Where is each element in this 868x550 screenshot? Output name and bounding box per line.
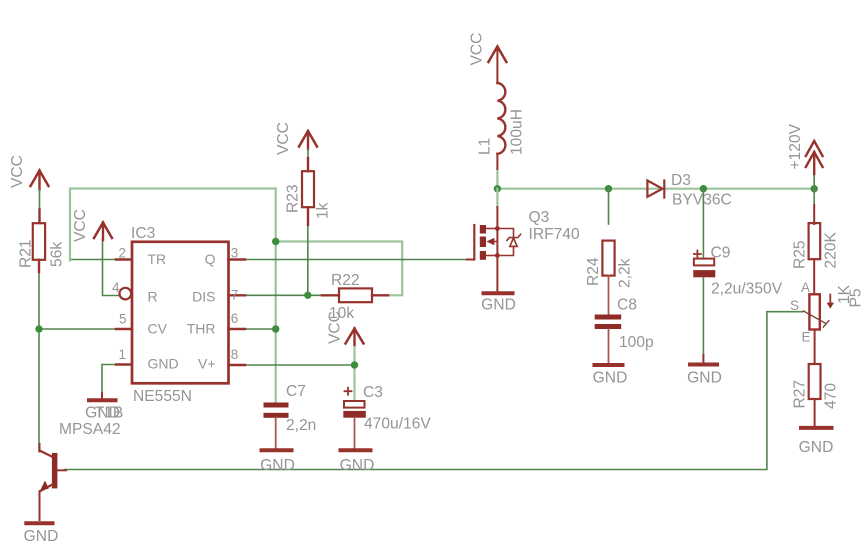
svg-text:Q3: Q3 — [529, 209, 550, 226]
wire: GND pin1 to ground symbol — [102, 365, 117, 395]
svg-text:V+: V+ — [198, 356, 216, 372]
wire: P5 wiper to T1 base (long bottom wire) — [65, 312, 803, 470]
svg-text:GND: GND — [340, 457, 375, 474]
svg-text:56k: 56k — [49, 242, 66, 267]
svg-text:C8: C8 — [617, 297, 637, 314]
svg-text:R25: R25 — [792, 240, 809, 269]
resistor R24 2,2k — [602, 241, 614, 315]
svg-text:GND: GND — [24, 528, 59, 545]
svg-text:GND: GND — [799, 439, 834, 456]
svg-text:TR: TR — [148, 251, 167, 267]
capacitor C8 100p — [595, 315, 622, 364]
svg-text:VCC: VCC — [9, 155, 26, 188]
transistor Q3 IRF740 (n-mosfet) — [467, 207, 521, 291]
wire: L1 bottom to bus — [496, 168, 498, 189]
wire: V+ pin8 to VCC / C3 (pale) — [245, 364, 355, 366]
supply VCC arrow (left, above R21) — [31, 171, 49, 224]
svg-text:220K: 220K — [823, 231, 840, 268]
node: junction bus / R24 — [605, 185, 612, 192]
ground symbol (R27) — [801, 426, 832, 430]
svg-text:R: R — [148, 289, 158, 305]
inductor L1 100uH — [497, 47, 505, 170]
svg-text:GND: GND — [481, 297, 516, 314]
svg-text:IC3: IC3 — [131, 225, 155, 242]
svg-text:C7: C7 — [286, 383, 306, 400]
svg-text:470: 470 — [823, 383, 840, 409]
svg-text:VCC: VCC — [72, 209, 89, 242]
svg-text:6: 6 — [231, 311, 239, 326]
svg-text:P5: P5 — [848, 288, 865, 307]
svg-text:R21: R21 — [18, 239, 35, 268]
svg-text:1k: 1k — [315, 202, 332, 219]
svg-text:4: 4 — [112, 280, 120, 295]
wire: TR pin2 loop over IC (pale) — [70, 259, 116, 261]
supply VCC arrow (pin 4 reset) — [94, 223, 112, 241]
svg-text:VCC: VCC — [275, 122, 292, 155]
capacitor C3 470u/16V (electrolytic) — [343, 388, 366, 448]
svg-text:T1B: T1B — [95, 405, 124, 422]
svg-text:MPSA42: MPSA42 — [59, 421, 121, 438]
ground symbol (C7) — [262, 448, 292, 452]
wire: main bus L1/D3/+120V — [497, 188, 814, 190]
node: junction THR / C7 net — [272, 325, 279, 332]
resistor R25 220K — [809, 205, 821, 294]
svg-text:GND: GND — [687, 370, 722, 387]
wire: THR pin6 to C7 net — [245, 328, 276, 330]
node: junction bus / C9 — [700, 185, 707, 192]
wire: pin4 reset VCC stem (pale) — [103, 238, 120, 296]
svg-text:100uH: 100uH — [509, 109, 526, 155]
wire: VCC stem down to V+ junction and C3 top (pale) — [353, 343, 355, 400]
svg-text:100p: 100p — [619, 334, 654, 351]
ground symbol (IC3 pin1) — [89, 393, 116, 400]
svg-text:D3: D3 — [671, 172, 691, 189]
node: junction DIS / R23 / R22 — [304, 292, 311, 299]
wire: Q output pin3 to Q3 gate — [245, 259, 467, 261]
svg-text:2,2u/350V: 2,2u/350V — [711, 281, 783, 298]
ground symbol (Q3 source) — [484, 291, 513, 295]
resistor R21 56k — [33, 223, 45, 272]
svg-text:1: 1 — [118, 347, 126, 362]
svg-text:7: 7 — [231, 288, 239, 303]
node: junction bus / Q3 drain — [494, 185, 501, 192]
wire: drain up to bus — [496, 189, 498, 207]
node: junction CV / left rail — [35, 325, 42, 332]
svg-text:DIS: DIS — [192, 289, 215, 305]
node: junction V+ / VCC / C3 — [351, 361, 358, 368]
ground symbol (C8) — [595, 363, 623, 367]
svg-text:R23: R23 — [285, 184, 302, 213]
supply +120V arrow — [806, 141, 823, 174]
transistor T1 MPSA42 — [40, 444, 67, 520]
svg-text:C3: C3 — [363, 384, 383, 401]
svg-text:S: S — [790, 298, 799, 313]
svg-text:R24: R24 — [585, 257, 602, 286]
op-amp-style IC body IC3 NE555N — [116, 242, 245, 383]
svg-text:GND: GND — [593, 370, 628, 387]
svg-text:2: 2 — [118, 246, 126, 261]
svg-text:5: 5 — [119, 312, 127, 327]
svg-text:IRF740: IRF740 — [529, 226, 580, 243]
diode D3 BYV36C — [647, 181, 664, 198]
svg-text:2,2k: 2,2k — [617, 258, 634, 288]
ground symbol (C3) — [341, 448, 371, 452]
svg-text:VCC: VCC — [327, 311, 344, 344]
svg-text:8: 8 — [231, 347, 239, 362]
svg-text:GND: GND — [148, 356, 179, 372]
supply VCC arrow (pin 8 V+) — [346, 329, 364, 346]
wire: CV pin5 to left rail — [39, 328, 118, 330]
supply VCC arrow (above L1) — [488, 47, 506, 63]
svg-text:C9: C9 — [711, 245, 731, 262]
svg-text:THR: THR — [187, 321, 216, 337]
supply VCC arrow (above R23) — [299, 131, 317, 171]
potentiometer P5 1K — [804, 294, 835, 364]
svg-text:470u/16V: 470u/16V — [364, 416, 431, 433]
wire: R23 bottom to DIS junction — [307, 224, 309, 295]
svg-text:L1: L1 — [477, 138, 494, 155]
svg-text:R27: R27 — [792, 380, 809, 409]
svg-text:VCC: VCC — [469, 33, 486, 66]
wire: left VCC rail vertical (R21 bottom to T1 collector) — [38, 271, 40, 450]
svg-text:A: A — [801, 280, 810, 295]
wire: bus down to C9 — [702, 189, 704, 257]
capacitor C7 2,2n — [264, 403, 289, 449]
svg-text:E: E — [802, 330, 811, 345]
wire: +120V stem to bus and R25 top — [813, 172, 815, 206]
svg-text:CV: CV — [148, 321, 168, 337]
wire: vertical net TR/THR down to C7 (pale) — [275, 189, 277, 403]
resistor R27 470 — [809, 364, 821, 426]
resistor R23 1k — [302, 171, 314, 225]
wire: DIS pin7 to R22 left / R23 bottom — [245, 294, 322, 296]
wire: bus down to R24 — [608, 189, 610, 224]
svg-text:NE555N: NE555N — [133, 388, 192, 405]
svg-text:2,2n: 2,2n — [286, 417, 316, 434]
ground symbol (C9) — [690, 363, 717, 367]
node: junction loop / R22 branch — [272, 238, 279, 245]
svg-text:3: 3 — [231, 246, 239, 261]
resistor R22 10k — [322, 288, 388, 302]
svg-text:Q: Q — [205, 251, 216, 267]
svg-text:BYV36C: BYV36C — [672, 192, 732, 209]
ground symbol (T1 emitter) — [26, 521, 52, 525]
wire: loop to R22 right end (pale) — [276, 242, 403, 296]
capacitor C9 2,2u/350V (electrolytic) — [693, 251, 715, 364]
node: junction bus / +120V / R25 — [811, 185, 818, 192]
svg-text:GND: GND — [260, 457, 295, 474]
svg-text:+120V: +120V — [787, 123, 804, 169]
svg-text:R22: R22 — [331, 272, 360, 289]
